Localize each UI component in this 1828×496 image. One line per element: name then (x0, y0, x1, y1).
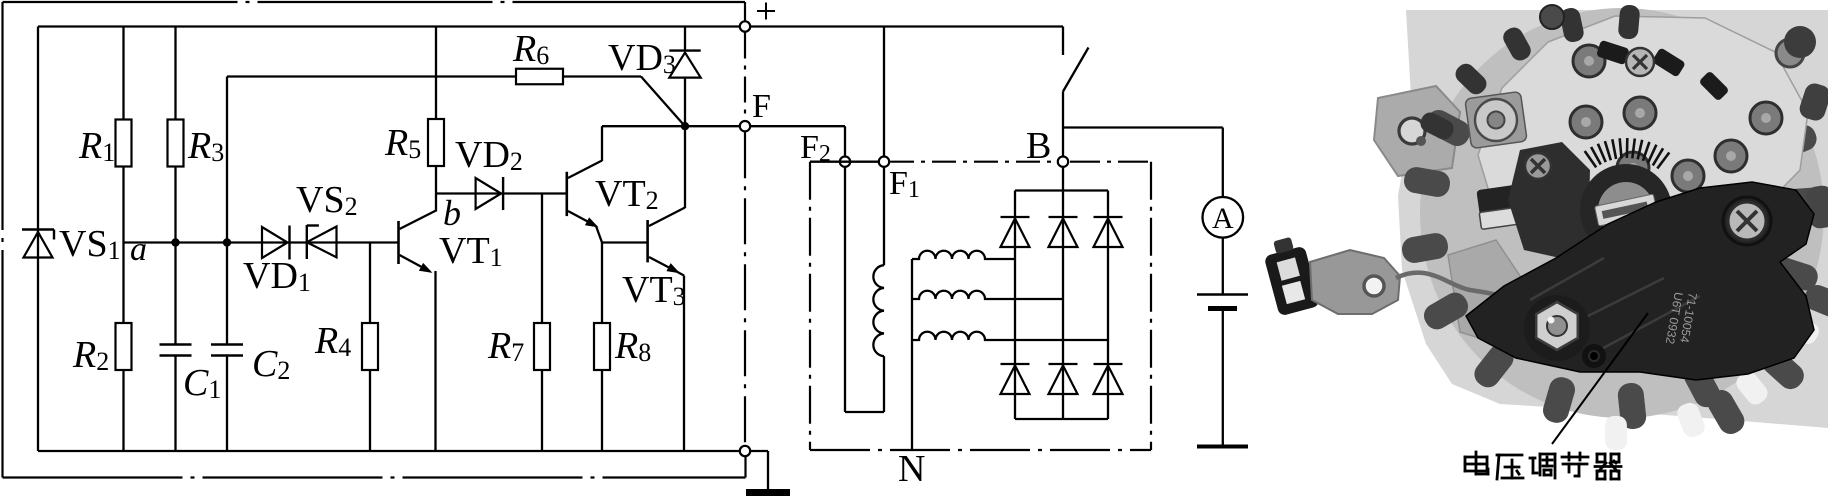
photo: dark housing left of hub (1508, 142, 1590, 258)
photo: right-edge details (1776, 39, 1804, 67)
terminal ground node (circle) (740, 446, 750, 456)
transistor VT3 (646, 220, 649, 262)
wire R1 column (122, 27, 124, 120)
wire + rail to switch (751, 25, 1063, 27)
stator winding phase 1 (912, 251, 1015, 259)
capacitor C1 (160, 343, 192, 346)
wire F1 column from + rail (883, 27, 885, 156)
photo: voltage regulator body (1466, 182, 1814, 380)
svg-text:F: F (752, 88, 771, 125)
wire field winding return to F2 (883, 356, 885, 412)
wire battery to ground bar (1222, 309, 1224, 447)
junction dot node F (681, 122, 689, 130)
photo: regulator lower hole (1582, 344, 1606, 368)
wire node-a line (124, 241, 399, 243)
wire ammeter to battery (1222, 238, 1224, 294)
label + (757, 10, 775, 12)
wire VT2 collector to node F (602, 125, 739, 127)
rectifier diode VD4 (positive) (1001, 216, 1030, 218)
resistor R4 (362, 323, 378, 370)
wire bridge positive rail (1015, 189, 1108, 191)
wire VD2 line (436, 192, 567, 194)
terminal F1 (circle) (879, 157, 889, 167)
photo: plate screw (1626, 48, 1654, 76)
capacitor C2 (211, 343, 243, 346)
svg-text:A: A (1212, 202, 1234, 235)
resistor R1 (116, 120, 132, 167)
photo: press-fit diodes (black) (1596, 40, 1630, 65)
wire R8 column (601, 243, 603, 324)
ground bar (battery negative) (1197, 445, 1248, 449)
photo: lower-left strut (1448, 240, 1536, 347)
wire R4 column (369, 243, 371, 324)
rectifier diode VD5 (positive) (1049, 216, 1078, 218)
photo: slip-ring hub (1580, 164, 1672, 256)
wire R6 to node F (563, 75, 641, 77)
svg-text:B: B (1026, 125, 1051, 167)
wire VD3 top (684, 27, 686, 51)
photo: rotor vent slots (1400, 64, 1828, 438)
wire R5 to VT1 collector (435, 166, 437, 212)
pointer line to regulator (1552, 313, 1648, 444)
wire VD3 to node F (684, 78, 686, 126)
photo: top claw poles (1417, 4, 1640, 142)
photo: top-right pulley hole (1784, 26, 1816, 58)
resistor R2 (116, 323, 132, 370)
terminal + (circle) (740, 21, 750, 31)
photo: brush-holder screw (1525, 153, 1551, 179)
resistor R3 (168, 120, 184, 167)
photo: field wire (1396, 273, 1544, 314)
photo: rectifier plate (1478, 16, 1808, 258)
wire ground rail (bottom) (38, 450, 739, 452)
resistor R8 (594, 323, 610, 370)
transistor VT2 (565, 172, 568, 216)
terminal F (circle) (740, 121, 750, 131)
wire F2-F1 link (810, 161, 878, 163)
photo: regulator part number text (1663, 289, 1700, 348)
photo: diode cans on plate (1573, 45, 1605, 77)
photo: bright fan teeth (lower right) (1605, 311, 1823, 450)
wire C1 bottom (174, 356, 176, 451)
rectifier diode VD6 (positive) (1094, 216, 1123, 218)
photo: regulator mounting screw (1723, 197, 1771, 245)
resistor R6 (516, 69, 563, 85)
alternator unit boundary (dash-dot box) (890, 161, 1057, 163)
wire neutral bus N (911, 259, 913, 450)
wire to chassis ground (751, 450, 768, 452)
diode VD3 (669, 49, 700, 51)
field winding (rotor coil) (873, 265, 884, 356)
wire R7 column (541, 194, 543, 324)
photo: background (1398, 10, 1828, 428)
wire VT3 base / R8 top (602, 241, 648, 243)
rectifier diode VD9 (negative) (1094, 363, 1123, 365)
wire C1 top (174, 243, 176, 345)
photo: top bolt (1540, 5, 1564, 29)
wire R5 column (435, 27, 437, 120)
rectifier diode VD8 (negative) (1049, 363, 1078, 365)
wire R3 column (174, 27, 176, 120)
wire bridge column 3 (1107, 191, 1109, 420)
photo: B+ stud with washer (1465, 91, 1527, 148)
transistor VT1 (397, 221, 400, 264)
photo: brush holder (1476, 178, 1567, 220)
terminal B (circle) (1058, 157, 1068, 167)
photo: field terminal stud and nut (1524, 295, 1590, 361)
wire switch to terminal B (1062, 92, 1064, 156)
resistor R7 (534, 323, 550, 370)
svg-text:N: N (898, 448, 925, 490)
wire F to F2 (751, 125, 845, 127)
chassis ground bar (746, 489, 790, 496)
svg-text:b: b (443, 193, 461, 233)
wire R2 column (122, 243, 124, 324)
battery GB (1197, 293, 1248, 296)
wire F1 into field winding (883, 168, 885, 266)
switch (ignition) (1062, 27, 1064, 56)
terminal F2 (circle) (840, 157, 850, 167)
wire to ammeter (1063, 126, 1223, 128)
svg-text:a: a (130, 231, 147, 268)
stator winding phase 2 (912, 291, 1063, 299)
wire feedback line (227, 75, 516, 77)
zener diode VS2 (306, 225, 308, 259)
regulator unit boundary (dash-dot box) (3, 1, 746, 3)
junction dot at C2 (223, 238, 231, 246)
ammeter A (1203, 197, 1244, 238)
diode VD1 (262, 227, 288, 258)
caption 电压调节器 (voltage regulator) (1465, 452, 1488, 474)
zener diode VS1 (22, 228, 54, 230)
resistor R5 (428, 119, 444, 166)
photo: mounting lug with hole (1374, 86, 1460, 176)
photo: harness connector (1261, 234, 1321, 316)
stator winding phase 3 (912, 332, 1108, 340)
wire C2 column (226, 77, 228, 345)
wire bridge column 1 (1014, 191, 1016, 420)
junction dot at R3/C1 (171, 238, 179, 246)
wire + rail (top) (38, 25, 739, 27)
photo: alternator body (1420, 8, 1824, 418)
wire bridge column 2 (from B) (1062, 168, 1064, 419)
wire bridge negative rail (1015, 418, 1108, 420)
photo: timing comb marks (1585, 138, 1670, 169)
diode VD2 (476, 178, 502, 209)
photo: connector arm (1310, 250, 1400, 314)
wire C2 bottom (226, 356, 228, 451)
rectifier diode VD7 (negative) (1001, 363, 1030, 365)
wire left rail (37, 27, 39, 452)
